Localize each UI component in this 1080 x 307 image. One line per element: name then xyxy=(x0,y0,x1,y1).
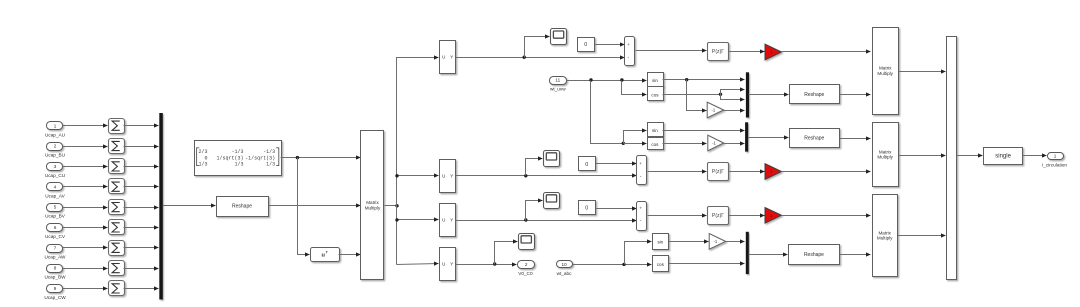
sum Add1 xyxy=(625,37,635,66)
wire xyxy=(63,207,108,209)
wire xyxy=(663,143,707,145)
svg-text:P(z)Γ: P(z)Γ xyxy=(712,49,724,55)
inport 6 Ucap_CV xyxy=(47,224,63,232)
svg-text:Multiply: Multiply xyxy=(877,71,893,76)
inport 10 wt_abc xyxy=(557,261,573,268)
svg-text:-1/3: -1/3 xyxy=(263,149,275,155)
wire xyxy=(625,242,652,265)
node J13 xyxy=(493,262,496,265)
wire xyxy=(729,51,765,53)
svg-text:Ucap_AV: Ucap_AV xyxy=(45,193,65,198)
wire xyxy=(749,137,789,139)
wire xyxy=(596,163,637,165)
wire xyxy=(526,159,543,176)
constant zero2 xyxy=(579,157,596,171)
svg-text:U: U xyxy=(442,173,445,178)
sum Add2 xyxy=(637,156,647,185)
wire xyxy=(669,241,709,243)
wire xyxy=(124,288,159,290)
node J12 xyxy=(524,218,527,221)
svg-text:U: U xyxy=(442,55,445,60)
wire xyxy=(782,215,871,217)
svg-text:1/3: 1/3 xyxy=(234,162,243,168)
trig cos3 xyxy=(653,256,669,272)
wire xyxy=(782,171,871,173)
wire xyxy=(624,131,647,144)
selector U4 xyxy=(440,248,456,281)
wire xyxy=(648,215,707,217)
gain G1 red xyxy=(765,44,781,60)
wire xyxy=(456,220,637,222)
wire xyxy=(687,80,707,111)
svg-text:Ucap_BU: Ucap_BU xyxy=(45,153,66,158)
wire xyxy=(339,254,361,256)
svg-text:0: 0 xyxy=(584,42,587,48)
wire xyxy=(456,264,517,266)
svg-text:0: 0 xyxy=(585,162,588,168)
svg-text:single: single xyxy=(995,154,1011,160)
inport 5 Ucap_BV xyxy=(47,204,63,212)
svg-text:Multiply: Multiply xyxy=(877,236,893,241)
inport 7 Ucap_AW xyxy=(47,245,63,253)
wire xyxy=(749,254,788,256)
svg-text:I_circulation: I_circulation xyxy=(1042,162,1067,167)
node J2 xyxy=(395,204,398,207)
gain Gm2 -1 xyxy=(708,135,724,151)
wire xyxy=(63,125,108,127)
constant K1 Clarke matrix xyxy=(195,141,282,176)
svg-text:6: 6 xyxy=(54,225,57,230)
svg-text:3: 3 xyxy=(54,164,57,169)
selector U2 xyxy=(440,160,456,193)
svg-text:5: 5 xyxy=(54,205,57,210)
wire xyxy=(729,171,765,173)
node J9 xyxy=(719,93,722,96)
wire xyxy=(624,143,647,145)
svg-text:U: U xyxy=(442,262,445,267)
wire xyxy=(124,247,159,249)
constant zero1 xyxy=(578,38,595,52)
svg-text:Multiply: Multiply xyxy=(877,155,893,160)
wire xyxy=(663,94,720,96)
sum block S4 xyxy=(109,179,125,194)
svg-text:1: 1 xyxy=(54,123,57,128)
wire xyxy=(596,208,637,210)
node J1 xyxy=(296,156,299,159)
wire xyxy=(721,95,745,100)
wire xyxy=(840,254,871,256)
wire xyxy=(298,158,310,255)
node J8 xyxy=(685,78,688,81)
scope Scope3 xyxy=(544,193,560,209)
svg-text:-1: -1 xyxy=(712,108,716,113)
polynomial P2 xyxy=(708,163,729,181)
node J3 xyxy=(395,174,398,177)
wire xyxy=(729,215,765,217)
wire xyxy=(1023,155,1047,157)
inport 9 Ucap_CW xyxy=(47,285,63,293)
svg-text:Ucap_CV: Ucap_CV xyxy=(45,234,66,239)
wire xyxy=(663,79,745,81)
svg-text:wt_abc: wt_abc xyxy=(557,271,573,276)
wire xyxy=(385,205,397,207)
selector U3 xyxy=(440,204,456,237)
sum block S6 xyxy=(109,220,125,235)
mux M_left xyxy=(159,113,163,300)
wire xyxy=(840,94,871,96)
svg-text:11: 11 xyxy=(555,78,560,83)
svg-text:10: 10 xyxy=(562,262,568,267)
sum block S5 xyxy=(109,200,125,215)
svg-text:+: + xyxy=(627,42,630,47)
wire xyxy=(397,175,439,177)
wire xyxy=(573,264,652,266)
matrix multiply MM1 xyxy=(361,131,384,280)
svg-text:P(z)Γ: P(z)Γ xyxy=(712,213,724,219)
wire xyxy=(663,130,745,132)
wire xyxy=(63,166,108,168)
inport 2 Ucap_BU xyxy=(47,143,63,151)
svg-text:cos: cos xyxy=(651,92,659,97)
svg-text:1/3: 1/3 xyxy=(198,162,207,168)
trig cos1 xyxy=(648,87,664,101)
wire xyxy=(898,235,946,237)
node J7 xyxy=(620,78,623,81)
svg-text:Ucap_CU: Ucap_CU xyxy=(45,173,66,178)
svg-text:Y: Y xyxy=(450,218,453,223)
wire xyxy=(124,207,159,209)
svg-text:-1: -1 xyxy=(712,141,716,146)
svg-text:Y: Y xyxy=(450,173,453,178)
wire xyxy=(63,146,108,148)
wire xyxy=(957,155,983,157)
wire xyxy=(525,37,550,58)
node J6 xyxy=(589,78,592,81)
svg-text:2: 2 xyxy=(54,144,57,149)
svg-text:sin: sin xyxy=(657,240,663,245)
svg-text:-1/sqrt(3): -1/sqrt(3) xyxy=(245,155,275,161)
polynomial P1 xyxy=(708,43,729,61)
trig sin3 xyxy=(653,234,669,250)
wire xyxy=(63,227,108,229)
outport 2 V0_C0 xyxy=(518,261,535,269)
wire xyxy=(782,51,871,53)
svg-text:wt_uvw: wt_uvw xyxy=(550,87,566,92)
wire xyxy=(281,157,361,159)
sum block S2 xyxy=(109,139,125,154)
wire xyxy=(124,146,159,148)
svg-text:+: + xyxy=(639,161,642,166)
svg-text:0: 0 xyxy=(204,155,207,161)
svg-text:0: 0 xyxy=(585,206,588,212)
node J10 xyxy=(622,142,625,145)
wire xyxy=(591,81,623,144)
svg-text:Y: Y xyxy=(450,262,453,267)
wire xyxy=(724,110,745,112)
sum block S8 xyxy=(109,261,125,276)
concat block xyxy=(947,37,957,280)
trig sin1 xyxy=(648,73,664,87)
wire xyxy=(397,58,439,265)
math function uT xyxy=(311,248,340,262)
svg-text:1/3: 1/3 xyxy=(266,162,275,168)
wire xyxy=(124,268,159,270)
wire xyxy=(749,94,789,96)
node J11 xyxy=(524,174,527,177)
sum block S1 xyxy=(109,119,125,134)
outport 1 I_circulation xyxy=(1048,153,1064,160)
wire xyxy=(724,143,745,145)
wire xyxy=(124,125,159,127)
matrix multiply MM4 xyxy=(873,195,898,277)
svg-text:Ucap_AW: Ucap_AW xyxy=(45,254,67,259)
inport 3 Ucap_CU xyxy=(47,163,63,171)
wire xyxy=(124,166,159,168)
wire xyxy=(636,50,707,52)
svg-text:cos: cos xyxy=(651,142,659,147)
wire xyxy=(495,242,518,265)
block Reshape R2 xyxy=(790,129,840,148)
svg-text:Ucap_CW: Ucap_CW xyxy=(44,295,66,300)
wire xyxy=(899,71,946,73)
wire xyxy=(726,241,745,243)
wire xyxy=(397,219,439,221)
gain Gm3 -1 xyxy=(709,234,725,250)
wire xyxy=(63,186,108,188)
inport 4 Ucap_AV xyxy=(47,183,63,191)
sum block S3 xyxy=(109,159,125,174)
wire xyxy=(456,175,637,177)
scope Scope2 xyxy=(544,151,560,167)
inport 8 Ucap_BW xyxy=(47,265,63,273)
mux M2 xyxy=(745,122,748,151)
block Reshape R1 xyxy=(790,85,840,104)
wire xyxy=(269,205,361,207)
svg-text:8: 8 xyxy=(54,266,57,271)
selector U1 xyxy=(440,41,456,74)
wire xyxy=(124,186,159,188)
matrix multiply MM3 xyxy=(873,123,899,187)
gain G3 red xyxy=(765,208,781,224)
svg-text:+: + xyxy=(639,206,642,211)
svg-text:4: 4 xyxy=(54,184,57,189)
wire xyxy=(163,205,216,207)
data type conversion single xyxy=(984,148,1023,165)
svg-text:Ucap_BW: Ucap_BW xyxy=(44,275,66,280)
wire xyxy=(63,247,108,249)
sum block S9 xyxy=(109,281,125,296)
wire xyxy=(899,155,946,157)
node J5 xyxy=(523,56,526,59)
svg-text:Multiply: Multiply xyxy=(365,205,381,210)
mux M1 xyxy=(746,72,749,117)
wire xyxy=(63,288,108,290)
block Reshape R3 xyxy=(789,245,840,265)
wire xyxy=(840,138,871,140)
scope Scope4 xyxy=(519,234,535,250)
svg-text:9: 9 xyxy=(54,286,57,291)
mux M3 xyxy=(746,232,749,274)
trig sin2 xyxy=(648,123,664,137)
constant zero3 xyxy=(579,201,596,215)
sum block S7 xyxy=(109,241,125,256)
trig cos2 xyxy=(648,138,664,150)
svg-text:2/3: 2/3 xyxy=(198,149,207,155)
wire xyxy=(397,264,439,265)
svg-text:2: 2 xyxy=(525,262,528,267)
polynomial P3 xyxy=(708,207,729,225)
svg-text:1/sqrt(3): 1/sqrt(3) xyxy=(216,155,243,161)
svg-text:U: U xyxy=(442,218,445,223)
scope Scope1 xyxy=(551,29,567,45)
wire xyxy=(63,268,108,270)
node J14 xyxy=(622,263,625,266)
sum Add3 xyxy=(637,202,647,231)
wire xyxy=(595,44,625,46)
svg-text:7: 7 xyxy=(54,245,57,250)
wire xyxy=(456,57,625,59)
node J4 xyxy=(395,218,398,221)
block Reshape R0 xyxy=(217,197,269,217)
wire xyxy=(526,201,543,221)
wire xyxy=(567,80,647,82)
svg-text:Y: Y xyxy=(450,55,453,60)
svg-text:-1/3: -1/3 xyxy=(231,149,243,155)
wire xyxy=(721,90,745,95)
gain G2 red xyxy=(765,164,781,180)
svg-text:Reshape: Reshape xyxy=(232,204,252,210)
wire xyxy=(124,227,159,229)
svg-text:P(z)Γ: P(z)Γ xyxy=(712,169,724,175)
svg-text:Reshape: Reshape xyxy=(804,252,824,258)
svg-text:sin: sin xyxy=(652,128,658,133)
svg-text:Reshape: Reshape xyxy=(804,136,824,142)
svg-text:Ucap_BV: Ucap_BV xyxy=(45,214,66,219)
svg-text:Ucap_AU: Ucap_AU xyxy=(45,132,66,137)
svg-text:-1: -1 xyxy=(714,239,718,244)
inport 11 wt_uvw xyxy=(550,77,567,85)
wire xyxy=(648,171,707,173)
inport 1 Ucap_AU xyxy=(47,122,63,130)
svg-text:1: 1 xyxy=(1054,153,1057,158)
wire xyxy=(622,81,647,95)
svg-text:Reshape: Reshape xyxy=(804,92,824,98)
svg-text:cos: cos xyxy=(657,262,665,267)
wire xyxy=(669,263,745,265)
gain Gm1 -1 xyxy=(707,102,723,118)
matrix multiply MM2 xyxy=(873,28,899,115)
svg-text:V0_C0: V0_C0 xyxy=(518,271,533,276)
svg-text:sin: sin xyxy=(652,78,658,83)
